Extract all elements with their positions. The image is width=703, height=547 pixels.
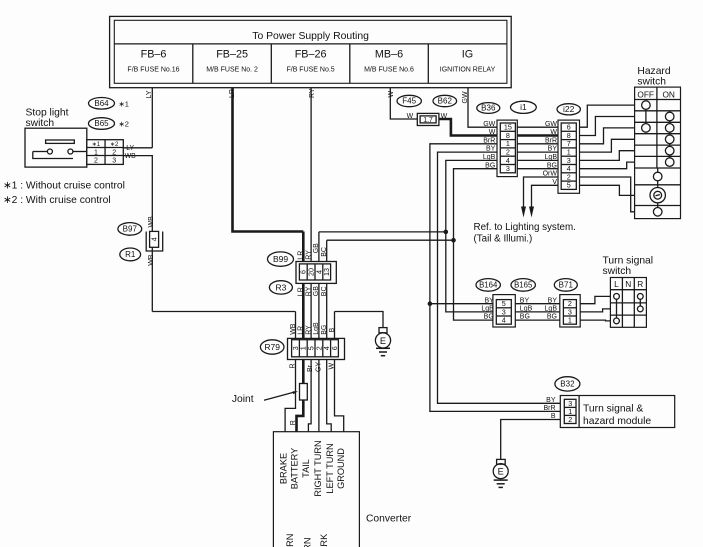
wire BY from i1 pin2 down to B32 pin 3	[438, 152, 565, 403]
svg-text:LY: LY	[126, 145, 134, 152]
fuse 1.7	[417, 113, 439, 125]
wire LR/R (thick) B99 pin6 through R79 pin1 and joint to converter BATTERY	[297, 232, 304, 432]
svg-text:3: 3	[506, 164, 510, 173]
svg-text:3: 3	[112, 158, 116, 165]
svg-text:R: R	[290, 363, 297, 368]
svg-text:5: 5	[567, 181, 571, 190]
svg-text:B36: B36	[481, 104, 496, 113]
svg-text:OFF: OFF	[637, 89, 654, 99]
svg-text:LY: LY	[146, 90, 153, 98]
svg-text:WB: WB	[290, 323, 297, 335]
junction GB/LgB	[444, 230, 449, 235]
svg-text:13: 13	[322, 268, 331, 276]
svg-text:BrR: BrR	[543, 405, 555, 412]
svg-text:R79: R79	[264, 342, 280, 352]
svg-text:switch: switch	[603, 266, 632, 277]
svg-text:WB: WB	[148, 216, 155, 228]
svg-text:OrW: OrW	[543, 171, 558, 178]
svg-text:WB: WB	[125, 153, 137, 160]
power supply routing table	[110, 16, 512, 87]
svg-text:B71: B71	[559, 281, 574, 290]
connector ref B165	[511, 279, 535, 292]
wire B from B32 pin2 to ground E	[501, 420, 565, 460]
wire R from R79 pin3 to converter BRAKE	[285, 357, 295, 432]
svg-text:BY: BY	[484, 297, 494, 304]
svg-text:∗1: ∗1	[92, 142, 101, 148]
svg-text:R3: R3	[275, 282, 286, 292]
wire BC/W B99 pin13 through R79 pin4 to converter LEFT TURN	[327, 240, 332, 432]
svg-text:E: E	[380, 336, 386, 346]
junction BC/BG	[451, 238, 456, 243]
wire LY drop from FB-6	[151, 88, 153, 148]
wire BrR i22 to hazard switch	[576, 128, 634, 144]
connector ref B65	[89, 118, 115, 130]
svg-text:TURN: TURN	[285, 534, 295, 547]
svg-text:Converter: Converter	[366, 514, 412, 525]
connector B71 box	[560, 295, 580, 327]
wire OrW from i22 pin2 to lighting system arrow	[524, 177, 562, 207]
svg-text:i22: i22	[563, 104, 575, 114]
connector ref B32	[555, 377, 580, 391]
svg-text:i1: i1	[520, 102, 527, 112]
svg-text:BG: BG	[485, 162, 495, 169]
svg-text:BG: BG	[321, 325, 328, 335]
ground E (converter side)	[379, 328, 387, 333]
stop light switch movable contact bar	[33, 152, 73, 159]
wire B71 pin2 to turn signal switch L	[576, 296, 610, 303]
wire WB into R79 pin 3	[295, 312, 297, 340]
svg-text:B: B	[551, 413, 556, 420]
connector ref B164	[476, 279, 500, 292]
wire B71 pin1 to turn signal switch row 3	[576, 319, 610, 322]
svg-text:B164: B164	[479, 281, 498, 290]
svg-text:Hazard: Hazard	[637, 66, 670, 77]
svg-text:B99: B99	[273, 254, 288, 264]
ground E (module side)	[497, 459, 506, 464]
wire B71 pin3 to turn signal switch N row	[576, 309, 610, 312]
svg-text:RIGHT TURN: RIGHT TURN	[313, 440, 323, 496]
connector ref B99	[268, 252, 294, 266]
wire BG from i1 pin3 down to B164 pin 4	[454, 169, 501, 320]
connector ref B97	[118, 223, 142, 236]
wire BG B164/B165 to B71	[511, 319, 563, 321]
wire B from R79 pin6 to ground E	[335, 312, 384, 328]
svg-text:switch: switch	[26, 118, 55, 129]
svg-text:GW: GW	[483, 121, 495, 128]
svg-text:switch: switch	[637, 77, 666, 88]
connector i22 box	[558, 120, 580, 193]
wire LgB i1 to i22	[515, 159, 561, 161]
svg-text:V: V	[552, 179, 557, 186]
arrow to lighting system (V)	[521, 207, 526, 218]
svg-text:B97: B97	[123, 225, 138, 234]
svg-text:W: W	[328, 363, 335, 370]
svg-text:W: W	[489, 129, 496, 136]
joint	[300, 384, 308, 401]
wire W i22 to hazard switch	[576, 117, 634, 136]
wire LY to stop light switch	[123, 147, 152, 149]
connector ref B62	[433, 95, 457, 106]
wire BC horizontal to junction with BG vertical	[327, 239, 454, 241]
stop light switch contacts	[33, 151, 48, 153]
svg-text:(Tail & Illumi.): (Tail & Illumi.)	[474, 234, 533, 245]
connector ref i22	[557, 104, 580, 115]
svg-text:RY: RY	[305, 325, 312, 335]
svg-text:Br: Br	[307, 364, 314, 372]
svg-text:RY: RY	[309, 88, 316, 98]
stop light switch connector grid	[87, 140, 124, 165]
junction BrR/BY branch	[428, 301, 433, 306]
svg-text:FB–25: FB–25	[216, 48, 248, 60]
converter box	[273, 432, 359, 547]
svg-text:BG: BG	[484, 314, 494, 321]
wire RY/Br B99 pin20 through R79 pin5 to converter TAIL	[308, 264, 311, 432]
svg-text:F/B FUSE No.16: F/B FUSE No.16	[127, 67, 179, 74]
svg-text:R: R	[290, 420, 297, 425]
svg-text:BG: BG	[547, 314, 557, 321]
wire OrW i22 pin2 to hazard switch bottom	[576, 177, 634, 212]
svg-text:IGNITION RELAY: IGNITION RELAY	[440, 67, 496, 74]
svg-text:hazard module: hazard module	[583, 416, 651, 427]
svg-text:Joint: Joint	[232, 394, 254, 405]
svg-text:LgB: LgB	[520, 306, 533, 313]
wire BY B164/B165 to B71	[511, 303, 563, 305]
hazard switch lamp circuit	[657, 168, 659, 172]
svg-text:B62: B62	[438, 97, 453, 106]
svg-text:BY: BY	[520, 297, 530, 304]
wire B below R79 pin6 to converter GROUND	[335, 312, 344, 432]
svg-text:ON: ON	[662, 89, 674, 99]
svg-text:BrR: BrR	[483, 137, 495, 144]
connector B99/R3 box	[296, 262, 336, 284]
svg-text:2: 2	[94, 158, 98, 165]
wire GB horizontal to junction with LgB vertical	[319, 231, 446, 233]
svg-text:∗1: ∗1	[119, 100, 129, 109]
connector B164/B165 box	[493, 295, 515, 327]
connector ref F45	[397, 95, 421, 106]
connector B97/R1 box	[146, 232, 163, 252]
svg-text:B165: B165	[514, 281, 533, 290]
connector B32 cells	[564, 399, 576, 423]
svg-text:RY: RY	[305, 250, 312, 260]
svg-text:LR: LR	[298, 251, 305, 260]
wire W from MB-6 to fuse 1.7	[390, 88, 417, 119]
svg-text:To Power Supply Routing: To Power Supply Routing	[252, 31, 369, 42]
svg-text:W: W	[407, 113, 414, 120]
svg-text:LgB: LgB	[545, 306, 558, 313]
svg-text:B32: B32	[560, 380, 575, 389]
svg-text:1: 1	[568, 316, 572, 325]
svg-text:GB: GB	[313, 243, 320, 253]
svg-text:Turn signal &: Turn signal &	[583, 404, 643, 415]
svg-text:LR: LR	[298, 287, 305, 296]
stop light switch plunger	[46, 140, 75, 143]
svg-text:LR: LR	[298, 326, 305, 335]
svg-text:BG: BG	[520, 314, 530, 321]
svg-text:B65: B65	[94, 119, 109, 128]
svg-text:BRAKE: BRAKE	[278, 453, 288, 484]
svg-text:GY: GY	[316, 362, 323, 372]
wire W (thick) i1 to i22	[515, 134, 561, 137]
wire LgB i22 to hazard switch	[576, 151, 634, 161]
svg-text:1: 1	[94, 149, 98, 156]
svg-text:BY: BY	[486, 146, 496, 153]
svg-text:LgB: LgB	[483, 154, 496, 161]
svg-text:∗1 : Without cruise control: ∗1 : Without cruise control	[3, 181, 125, 192]
wire BrR i1 to i22	[515, 143, 561, 145]
svg-text:LR: LR	[229, 89, 236, 98]
connector ref B36	[477, 103, 500, 114]
svg-text:R1: R1	[125, 250, 136, 259]
wire W (thick) from fuse 1.7 to i1 pin 8	[439, 119, 500, 136]
wire RY drop from FB-26 to B99 pin 20	[310, 88, 312, 264]
svg-text:W: W	[441, 113, 448, 120]
svg-text:BATTERY: BATTERY	[290, 448, 300, 490]
svg-text:Turn signal: Turn signal	[603, 255, 654, 266]
arrow to lighting system (OrW)	[529, 207, 534, 218]
svg-text:FB–6: FB–6	[141, 48, 167, 60]
wire GW i22 to hazard switch	[576, 105, 634, 127]
stop light switch	[25, 128, 87, 167]
svg-text:BG: BG	[547, 162, 557, 169]
svg-text:BrR: BrR	[545, 137, 557, 144]
wire V from i22 pin5 to lighting system arrow	[532, 185, 562, 207]
svg-text:∗2 : With cruise control: ∗2 : With cruise control	[3, 195, 111, 206]
wire BG i1 to i22	[515, 168, 561, 170]
hazard switch column divider	[656, 87, 658, 168]
wire LR (thick) from FB-25 to B99 pin 6	[233, 88, 304, 232]
wire BY i22 to hazard switch	[576, 139, 634, 152]
svg-text:4: 4	[502, 316, 506, 325]
svg-text:∗2: ∗2	[119, 120, 129, 129]
connector B36/i1 box	[497, 120, 517, 177]
wire LgB from i1 pin4 down to B164 pin 3	[446, 160, 501, 312]
svg-text:W: W	[388, 91, 395, 98]
connector ref i1	[511, 101, 537, 113]
wire BY branch from junction to B164 pin 5	[430, 303, 497, 305]
wire WB horizontal to R79 pin 3	[152, 311, 295, 313]
svg-text:B: B	[329, 328, 336, 333]
wire BY i1 to i22	[515, 151, 561, 153]
svg-text:W: W	[550, 129, 557, 136]
svg-text:1.7: 1.7	[423, 117, 433, 124]
svg-text:GB: GB	[313, 286, 320, 296]
svg-text:BC: BC	[321, 286, 328, 296]
svg-text:GW: GW	[462, 91, 469, 103]
svg-text:F45: F45	[402, 97, 416, 106]
turn signal switch box	[610, 278, 646, 328]
svg-text:FB–26: FB–26	[295, 48, 327, 60]
wire GB/GY B99 pin4 through R79 pin2 to converter RIGHT TURN	[318, 232, 320, 432]
svg-text:LgB: LgB	[545, 154, 558, 161]
svg-text:LgB: LgB	[313, 322, 320, 335]
svg-text:F/B FUSE No.5: F/B FUSE No.5	[286, 67, 334, 74]
wire V i22 pin5 to hazard switch lamp	[576, 185, 634, 195]
hazard indicator lamp	[650, 188, 665, 203]
joint pointer line	[264, 392, 296, 401]
svg-text:E: E	[498, 467, 504, 477]
svg-text:PARK: PARK	[319, 533, 329, 547]
wire WB from stop light switch down through B97	[123, 156, 152, 312]
svg-text:4: 4	[150, 237, 159, 241]
connector ref B64	[89, 98, 115, 110]
wire BrR from i1 pin1 down to B32 pin 1	[430, 144, 564, 412]
svg-text:HORN: HORN	[303, 538, 313, 547]
svg-text:∗2: ∗2	[110, 142, 119, 148]
connector ref R1	[120, 248, 141, 261]
connector ref B71	[554, 279, 577, 292]
svg-text:2: 2	[112, 149, 116, 156]
svg-text:LEFT TURN: LEFT TURN	[325, 443, 335, 493]
svg-text:N: N	[625, 279, 631, 289]
svg-text:BY: BY	[548, 146, 558, 153]
turn signal and hazard module box	[560, 396, 674, 428]
svg-text:R: R	[637, 279, 643, 289]
wire GW from IG to i1 pin 15	[468, 88, 500, 128]
svg-text:LgB: LgB	[481, 306, 494, 313]
svg-text:M/B FUSE No. 2: M/B FUSE No. 2	[206, 67, 258, 74]
hazard switch OFF contacts	[642, 101, 651, 110]
connector ref R79	[260, 340, 284, 354]
turn signal switch contacts	[614, 294, 620, 300]
hazard switch ON contacts	[665, 112, 674, 121]
wire LgB B164/B165 to B71	[511, 311, 563, 313]
svg-text:B64: B64	[94, 99, 109, 108]
svg-text:TAIL: TAIL	[301, 459, 311, 478]
svg-text:M/B FUSE No.6: M/B FUSE No.6	[364, 67, 414, 74]
svg-text:BC: BC	[321, 247, 328, 257]
svg-text:IG: IG	[462, 48, 473, 60]
connector R79 box	[288, 338, 345, 359]
svg-text:L: L	[614, 279, 619, 289]
svg-text:Ref. to Lighting system.: Ref. to Lighting system.	[474, 222, 576, 233]
svg-text:BY: BY	[546, 397, 556, 404]
svg-text:6: 6	[330, 346, 339, 350]
wire GW i1 to i22	[515, 126, 561, 128]
svg-text:GROUND: GROUND	[336, 448, 346, 489]
wire BG i22 to hazard switch	[576, 162, 634, 169]
hazard switch box	[635, 87, 681, 219]
svg-text:RY: RY	[305, 286, 312, 296]
svg-text:MB–6: MB–6	[375, 48, 403, 60]
svg-text:Stop light: Stop light	[26, 107, 69, 118]
svg-text:BY: BY	[548, 297, 558, 304]
svg-text:WB: WB	[148, 254, 155, 266]
svg-text:GW: GW	[545, 121, 557, 128]
connector ref R3	[269, 281, 292, 294]
svg-text:2: 2	[568, 415, 572, 424]
